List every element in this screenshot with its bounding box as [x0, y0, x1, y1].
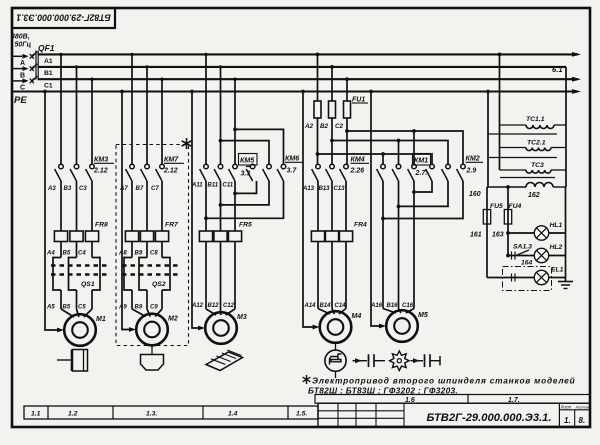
svg-text:В3: В3 [64, 186, 72, 192]
svg-text:М2: М2 [168, 316, 178, 323]
svg-text:FR5: FR5 [239, 222, 252, 229]
svg-text:161: 161 [470, 232, 482, 239]
fuse FU5 [483, 210, 490, 225]
control secondary winding wire 160-162 [487, 186, 526, 188]
svg-text:ТС1.1: ТС1.1 [526, 116, 545, 123]
motor M3 [205, 312, 237, 344]
svg-text:B1: B1 [44, 70, 53, 77]
svg-text:С5: С5 [78, 305, 86, 311]
svg-text:2.12: 2.12 [163, 168, 178, 175]
svg-text:Лист: Лист [560, 404, 572, 409]
svg-text:EL1: EL1 [551, 267, 564, 274]
svg-text:1.: 1. [564, 416, 571, 425]
svg-text:C1: C1 [44, 83, 53, 90]
svg-text:FR7: FR7 [165, 222, 179, 229]
wire jumpers feeding KM6 [235, 129, 284, 164]
zone row 1.6-1.7 [315, 395, 590, 404]
svg-text:164: 164 [521, 260, 533, 267]
zone strip 1.1-1.5 [24, 406, 318, 419]
wires KM2 outputs cross-connected to M5 phases [414, 181, 432, 192]
ground symbol [558, 281, 573, 283]
contactor contacts KM3 [59, 164, 64, 169]
motor M1 [64, 314, 96, 346]
svg-text:380В,: 380В, [11, 34, 30, 41]
wires fuse outputs [317, 118, 319, 165]
svg-text:2.26: 2.26 [350, 168, 365, 175]
wire drops to fuses FU1 [317, 54, 319, 101]
svg-text:В9: В9 [135, 305, 143, 311]
svg-text:163: 163 [492, 232, 504, 239]
svg-text:SA1.3: SA1.3 [513, 244, 532, 251]
thermal relay FR8 [54, 231, 67, 242]
svg-text:БТ82Г-29.000.000.Э3.1: БТ82Г-29.000.000.Э3.1 [16, 13, 111, 23]
gear mechanism symbol [390, 351, 410, 371]
PE conductor to M5 [371, 92, 384, 327]
svg-text:КМ6: КМ6 [285, 155, 299, 163]
contactor contacts KM1 [381, 164, 386, 169]
svg-text:С12: С12 [223, 303, 235, 309]
top-left stamp box with inverted drawing number [12, 8, 115, 28]
wire down to ground [565, 187, 567, 281]
svg-text:В9: В9 [135, 251, 143, 257]
local light lamp EL1 with dash-dot box [487, 277, 566, 279]
disconnector QS1 [60, 242, 62, 258]
asterisk mark on option box [186, 138, 188, 149]
mechanical coupling symbol right [411, 360, 424, 362]
svg-text:FU5: FU5 [490, 203, 503, 210]
wire 160 down [486, 187, 488, 278]
svg-text:50Гц: 50Гц [15, 42, 32, 49]
thermal relay FR5 [199, 231, 212, 242]
coolant pump icon below M4 [335, 343, 337, 350]
svg-text:С14: С14 [335, 303, 347, 309]
footnote asterisk [306, 375, 308, 384]
svg-text:1.1: 1.1 [31, 411, 41, 418]
svg-text:КМ3: КМ3 [94, 156, 108, 164]
svg-text:А7: А7 [119, 186, 128, 192]
contactor contacts KM4 [316, 164, 321, 169]
motor M5 [386, 310, 418, 342]
wires KM1 outputs to motor M5 [382, 181, 384, 309]
bus C1 [38, 78, 579, 80]
driven mechanism icon of M1 [57, 359, 71, 361]
wires KM7 outputs to FR7 [131, 181, 133, 231]
svg-text:1.3.: 1.3. [146, 411, 157, 418]
svg-text:QS1: QS1 [81, 281, 95, 288]
svg-text:В16: В16 [387, 303, 399, 309]
svg-text:С2: С2 [335, 123, 344, 130]
svg-text:В5: В5 [63, 251, 71, 257]
svg-text:А13: А13 [302, 186, 315, 192]
svg-text:С13: С13 [334, 186, 346, 192]
fuse FU4 [507, 187, 509, 256]
svg-text:М5: М5 [418, 312, 428, 319]
svg-text:A1: A1 [44, 58, 53, 65]
wire drops motor group M3 [205, 54, 207, 164]
wires KM3 outputs to FR8 [60, 181, 62, 231]
svg-text:FU4: FU4 [509, 203, 522, 210]
svg-text:В5: В5 [63, 305, 71, 311]
thermal relay FR7 [125, 231, 138, 242]
svg-text:КМ2: КМ2 [466, 155, 480, 163]
contactor contacts KM7 [130, 164, 135, 169]
svg-text:QS2: QS2 [152, 281, 166, 288]
svg-text:160: 160 [469, 191, 481, 198]
svg-text:A2: A2 [304, 123, 314, 130]
wires FR5 to motor M3 [205, 242, 207, 310]
switch SA1.3 and lamp HL2 [508, 255, 566, 257]
svg-text:A: A [20, 60, 25, 67]
svg-text:PE: PE [14, 95, 27, 106]
wires FR4 to motor M4 [317, 242, 319, 309]
svg-text:2.7.: 2.7. [415, 170, 428, 177]
bus junction dots [59, 53, 62, 56]
svg-text:ТС3: ТС3 [531, 162, 544, 169]
svg-text:1.2: 1.2 [68, 411, 78, 418]
driven mechanism icon of M2 [151, 346, 153, 355]
bus A1 [38, 53, 579, 55]
svg-text:В11: В11 [208, 183, 219, 189]
contactor contacts KM6 [250, 164, 255, 169]
motor M4 [320, 311, 352, 343]
svg-text:С9: С9 [150, 305, 158, 311]
mechanical coupling symbol left [353, 360, 368, 362]
wires KM5 outputs to FR5 [205, 181, 207, 231]
svg-text:М3: М3 [237, 314, 247, 321]
disconnector QS2 [131, 242, 133, 258]
svg-text:С8: С8 [150, 251, 158, 257]
wires KM6 outputs cross-connected to M3 phases [235, 181, 257, 193]
svg-text:В14: В14 [320, 303, 332, 309]
svg-text:В2: В2 [320, 123, 329, 130]
svg-text:А16: А16 [370, 303, 383, 309]
bus B1 [38, 66, 567, 68]
PE conductor to M3 [192, 92, 203, 329]
fuse FU1 (3 poles) [314, 101, 321, 118]
title block [318, 403, 590, 426]
svg-text:М1: М1 [96, 316, 106, 323]
wire drops motor group M1 [60, 54, 62, 164]
contactor contacts KM5 [204, 164, 209, 169]
PE conductor to M1 [45, 92, 62, 331]
svg-text:М4: М4 [352, 313, 362, 320]
svg-text:БТВ2Г-29.000.000.Э3.1.: БТВ2Г-29.000.000.Э3.1. [426, 412, 551, 424]
svg-text:2.9: 2.9 [466, 168, 477, 175]
svg-text:1.4: 1.4 [228, 411, 238, 418]
contactor contacts KM2 [430, 164, 435, 169]
svg-text:ТС2.1: ТС2.1 [527, 140, 546, 147]
svg-text:В12: В12 [208, 303, 220, 309]
svg-text:КМ7: КМ7 [164, 156, 179, 164]
svg-text:6.1: 6.1 [552, 65, 563, 74]
svg-text:А4: А4 [46, 251, 55, 257]
PE conductor to M4 [303, 92, 317, 328]
svg-text:КМ5: КМ5 [240, 157, 255, 165]
dashed option box around M2 branch [116, 145, 189, 346]
wire rail from PE to control circuit [487, 92, 489, 188]
svg-text:8.: 8. [579, 416, 586, 425]
QF1 linkage [35, 51, 37, 80]
bus PE [12, 90, 578, 92]
wire rail from B1 to transformers [565, 67, 567, 187]
svg-text:С16: С16 [402, 303, 414, 309]
svg-text:А5: А5 [46, 305, 55, 311]
svg-text:HL2: HL2 [550, 244, 563, 251]
svg-text:В13: В13 [319, 186, 331, 192]
svg-text:B: B [20, 72, 25, 79]
svg-text:А12: А12 [191, 303, 204, 309]
svg-text:В7: В7 [136, 186, 144, 192]
svg-text:КМ4: КМ4 [351, 156, 365, 164]
svg-text:Листов: Листов [575, 405, 589, 409]
wire jumpers feeding KM1 and KM2 [347, 131, 463, 165]
svg-text:Электропривод второго шпинделя: Электропривод второго шпинделя станков м… [312, 376, 575, 386]
PE conductor to M2 [122, 92, 134, 330]
svg-text:С11: С11 [223, 183, 234, 189]
svg-text:FR8: FR8 [95, 222, 108, 229]
wires KM4 outputs to FR4 [317, 181, 319, 231]
svg-text:162: 162 [528, 192, 540, 199]
signal lamp HL1 [508, 232, 566, 234]
svg-text:1.5.: 1.5. [296, 411, 307, 418]
svg-text:КМ1: КМ1 [414, 157, 428, 165]
svg-text:QF1: QF1 [38, 43, 55, 53]
svg-text:А14: А14 [304, 303, 317, 309]
driven mechanism icon of M3 [206, 352, 243, 371]
motor M2 [136, 314, 168, 346]
svg-text:С7: С7 [151, 186, 159, 192]
svg-text:3.7: 3.7 [287, 168, 298, 175]
svg-text:С4: С4 [78, 251, 86, 257]
svg-text:С3: С3 [79, 186, 87, 192]
wire drops motor group M2 [131, 54, 133, 164]
wire rail from A1 to transformers [499, 54, 501, 170]
thermal relay FR4 [311, 231, 324, 242]
svg-text:FR4: FR4 [354, 222, 367, 229]
svg-text:А3: А3 [47, 186, 56, 192]
svg-text:HL1: HL1 [550, 222, 563, 229]
svg-text:2.12: 2.12 [93, 168, 108, 175]
